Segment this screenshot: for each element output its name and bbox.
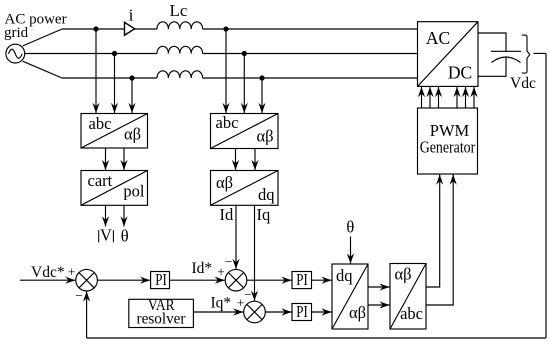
svg-text:Vdc: Vdc [510, 75, 536, 92]
wire block1 to cartpol beta [123, 148, 125, 170]
svg-text:PI: PI [296, 270, 308, 289]
wire feedback bottom horizontal [87, 337, 546, 339]
wire phase A horizontal left [62, 28, 157, 30]
wire cartpol output V magnitude [105, 205, 107, 226]
svg-text:θ: θ [346, 218, 354, 237]
summing junction S2 [225, 269, 247, 291]
wire phase C horizontal left [62, 77, 157, 79]
svg-text:+: + [68, 264, 76, 279]
svg-text:Generator: Generator [420, 138, 476, 157]
svg-text:pol: pol [123, 181, 145, 200]
wire tap A2 down [225, 29, 227, 113]
wire dq block to abc block alpha [368, 286, 390, 288]
svg-text:αβ: αβ [395, 264, 412, 283]
svg-text:grid: grid [4, 25, 29, 41]
transform block abc to alpha-beta #1 [81, 114, 148, 149]
wire DC bus bottom [478, 57, 506, 76]
wire gate drive 2 [429, 87, 431, 108]
wire tap B2 down [243, 54, 245, 114]
wire phase C horizontal right [203, 77, 418, 79]
wire gate drive 1 [421, 87, 423, 108]
svg-text:+: + [237, 296, 245, 311]
svg-text:Lc: Lc [170, 1, 188, 20]
summing junction S1 [76, 269, 98, 291]
svg-text:i: i [129, 6, 134, 25]
node tap A2 [223, 26, 228, 31]
wire feedback up to S1 [86, 291, 88, 338]
svg-text:Id: Id [220, 205, 234, 224]
controller PI1 [151, 272, 170, 289]
wire gate drive 6 [473, 87, 475, 108]
wire gate drive 3 [438, 87, 440, 108]
wire dq block to abc block beta [368, 304, 390, 306]
wire Iq feedback down [254, 205, 256, 300]
summing junction S3 [244, 301, 266, 323]
wire PI3 to dq block [312, 311, 332, 313]
wire Id feedback down [235, 205, 237, 269]
node tap B1 [112, 51, 117, 56]
wire tap C1 down [131, 78, 133, 113]
svg-text:abc: abc [400, 304, 423, 323]
AC source sine wave [9, 49, 23, 58]
transform block dq to alpha-beta [332, 264, 368, 329]
PWM generator block [418, 108, 478, 174]
svg-text:αβ: αβ [256, 126, 273, 145]
wire block2 to alphabeta-dq alpha [235, 149, 237, 171]
wire Vdc sense [534, 52, 547, 54]
svg-text:−: − [75, 288, 83, 303]
svg-text:resolver: resolver [137, 311, 187, 328]
wire feedback right vertical [545, 53, 547, 338]
wire tap A1 down [95, 29, 97, 113]
transform block cart to pol [81, 171, 148, 206]
svg-text:αβ: αβ [349, 303, 366, 322]
svg-text:−: − [244, 287, 252, 302]
wire S3 to PI3 [265, 311, 291, 313]
svg-text:+: + [217, 264, 225, 279]
svg-text:abc: abc [89, 114, 112, 133]
wire theta into dq block [350, 237, 352, 264]
brace Vdc [522, 35, 530, 73]
node tap C1 [129, 75, 134, 80]
svg-text:cart: cart [88, 171, 113, 190]
inductor Lc phase A [157, 22, 203, 29]
svg-text:Vdc*: Vdc* [31, 264, 65, 281]
converter block AC/DC [418, 22, 479, 87]
block VAR resolver [129, 299, 194, 327]
svg-text:Iq: Iq [257, 205, 271, 224]
AC source circle [6, 44, 25, 63]
wire tap C2 down [261, 78, 263, 113]
wire DC bus top [478, 33, 506, 51]
svg-text:PI: PI [155, 270, 167, 289]
wire block2 to alphabeta-dq beta [254, 149, 256, 171]
wire cartpol output theta [123, 205, 125, 226]
svg-text:PI: PI [296, 302, 308, 321]
wire gate drive 4 [456, 87, 458, 108]
wire Vdc* input [20, 279, 75, 281]
wire S2 to PI2 [247, 279, 292, 281]
wire block1 to cartpol alpha [105, 148, 107, 170]
wire abc block output 1 to PWM [426, 175, 440, 288]
transform block abc to alpha-beta #2 [211, 114, 279, 149]
svg-text:abc: abc [216, 113, 239, 132]
controller PI2 [292, 272, 312, 289]
node tap A1 [93, 26, 98, 31]
wire S1 to PI1 [97, 279, 150, 281]
controller PI3 [292, 304, 312, 321]
svg-text:dq: dq [258, 185, 275, 204]
svg-text:αβ: αβ [124, 125, 141, 144]
transform block alpha-beta to abc [390, 264, 426, 330]
svg-text:V: V [100, 226, 112, 245]
svg-text:θ: θ [121, 227, 129, 246]
svg-text:AC: AC [426, 28, 450, 48]
svg-text:dq: dq [336, 266, 353, 285]
wire gate drive 5 [465, 87, 467, 108]
svg-text:Iq*: Iq* [211, 294, 232, 311]
wire phase B horizontal right [203, 53, 418, 55]
node tap B2 [242, 51, 247, 56]
wire phase A diagonal [23, 29, 62, 46]
wire phase A horizontal right [203, 28, 418, 30]
capacitor C flat plate [491, 50, 521, 52]
transform block alpha-beta to dq [211, 171, 279, 206]
svg-text:Id*: Id* [192, 260, 213, 277]
svg-text:αβ: αβ [216, 173, 233, 192]
inductor Lc phase C [157, 71, 203, 78]
wire phase B horizontal [25, 53, 157, 55]
wire tap B1 down [114, 54, 116, 114]
wire abc block output 2 to PWM [426, 175, 453, 306]
inductor Lc phase B [157, 46, 203, 53]
wire PI1 to S2 [170, 279, 225, 281]
node tap C2 [259, 75, 264, 80]
wire VAR to S3 [194, 311, 244, 313]
wire phase C diagonal [23, 61, 62, 78]
current arrow i [125, 22, 135, 35]
wire PI2 to dq block [312, 279, 332, 281]
svg-text:DC: DC [448, 63, 472, 83]
capacitor C curved plate [492, 57, 521, 63]
svg-text:−: − [225, 254, 233, 269]
